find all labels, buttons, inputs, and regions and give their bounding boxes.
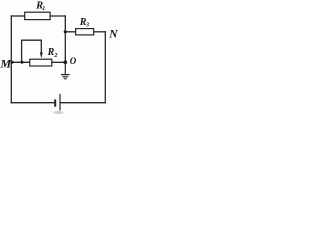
wire rheostat loop top horizontal: [22, 39, 42, 41]
wire R3 left lead: [65, 31, 75, 33]
wire right border: [104, 32, 106, 103]
svg-text:N: N: [108, 29, 118, 41]
wire node M to R2: [11, 61, 30, 63]
node O junction dot: [63, 60, 67, 64]
svg-text:3: 3: [85, 22, 89, 28]
wire left border: [10, 16, 12, 103]
rheostat wiper arrowhead: [40, 52, 43, 58]
svg-text:1: 1: [42, 6, 45, 12]
resistor R2 (rheostat): [30, 59, 52, 66]
battery cell: long positive plate: [59, 94, 61, 110]
wire bottom right segment: [60, 102, 105, 104]
battery cell: short thick negative plate: [54, 99, 56, 106]
wire R3 right lead: [94, 31, 106, 33]
wire rheostat wiper stem: [40, 40, 42, 53]
resistor R1: [25, 12, 50, 19]
wire R2 to node O: [52, 61, 66, 63]
junction dot R3 branch: [64, 30, 67, 33]
wire vertical from top wire down to node O: [64, 16, 66, 62]
wire top right segment: [50, 15, 65, 17]
wire top left segment: [11, 15, 24, 17]
wire rheostat loop left vertical: [21, 40, 23, 62]
ground: [61, 62, 70, 79]
svg-text:O: O: [70, 56, 77, 66]
resistor R3: [76, 29, 94, 35]
svg-text:2: 2: [53, 52, 58, 59]
node M junction dot: [11, 61, 14, 64]
junction dot loop-left on M wire: [21, 61, 24, 64]
scan smudge below battery: [54, 111, 64, 114]
wire bottom left segment: [11, 102, 54, 104]
svg-text:M: M: [0, 56, 12, 70]
